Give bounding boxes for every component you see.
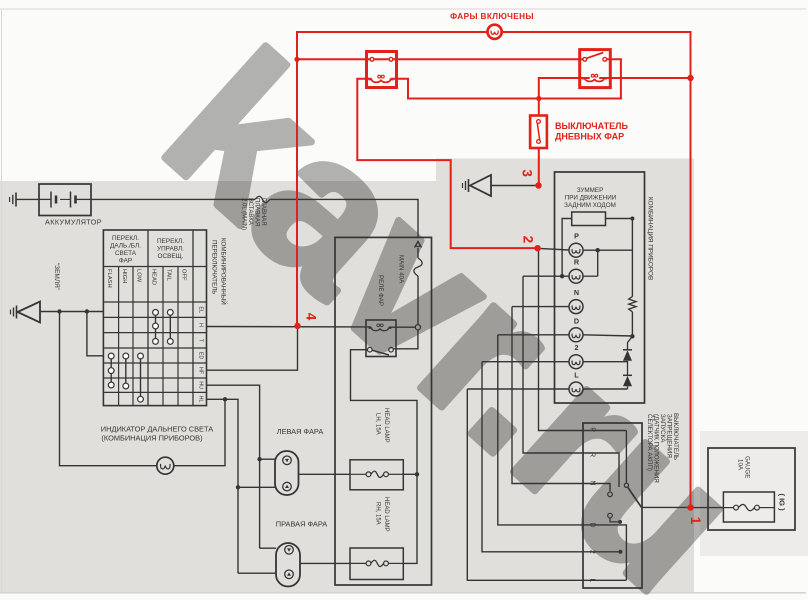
fuse HEAD LAMP RH symbol	[366, 561, 371, 566]
red wire RL2 coil right	[599, 77, 690, 79]
wire ground to battery	[16, 198, 39, 200]
red node 4	[294, 323, 300, 329]
svg-text:LH, 15A: LH, 15A	[375, 413, 381, 435]
svg-text:HEAD: HEAD	[151, 269, 157, 285]
wire selector common to node1	[642, 506, 691, 508]
fuse HEAD LAMP RH box	[350, 548, 403, 580]
red relay RL1 contact	[370, 57, 374, 61]
svg-text:EL: EL	[198, 306, 204, 313]
scanned page gray area	[0, 159, 694, 593]
red node 1	[687, 504, 693, 510]
svg-text:ПЕРЕКЛ.: ПЕРЕКЛ.	[112, 235, 139, 242]
svg-text:HEAD LAMP: HEAD LAMP	[383, 408, 389, 443]
wire D right	[583, 335, 632, 336]
wire node2 to P lamp	[539, 248, 569, 250]
red wire RL1 coil right to RL2 contact	[391, 59, 621, 98]
svg-text:ПРИ ДВИЖЕНИИ: ПРИ ДВИЖЕНИИ	[565, 195, 617, 202]
svg-text:ВЫКЛЮЧАТЕЛЬ: ВЫКЛЮЧАТЕЛЬ	[555, 121, 628, 131]
svg-text:N: N	[574, 288, 579, 297]
wire HU row	[207, 385, 260, 548]
svg-text:УПРАВЛ.: УПРАВЛ.	[157, 246, 184, 253]
svg-text:2.0L (MAIN): 2.0L (MAIN)	[241, 198, 247, 230]
red junction dot right bus	[687, 75, 693, 81]
svg-text:OFF: OFF	[181, 269, 187, 281]
svg-text:HF: HF	[198, 367, 204, 375]
wire L to selector L	[467, 389, 626, 580]
battery cells	[39, 198, 51, 200]
junction dot buzzer-R	[560, 274, 564, 278]
junction dot HU-lamp1	[257, 457, 261, 461]
wire drop to ED row	[87, 312, 104, 356]
wire D to selector D	[498, 335, 627, 581]
svg-text:P: P	[589, 427, 596, 432]
wire L right to diode D2	[583, 388, 628, 390]
page bottom rule	[0, 592, 806, 594]
wire to right lamp high contact	[260, 547, 276, 549]
wire battery to main fuse	[91, 198, 255, 200]
ground G3	[462, 183, 464, 188]
wire MAIN feed lower	[417, 276, 419, 325]
indicator lamp D	[569, 328, 583, 342]
svg-text:2: 2	[589, 550, 596, 554]
wire ground3 to node3	[491, 185, 539, 187]
relay K1 contact	[368, 347, 373, 352]
svg-text:HU: HU	[198, 381, 204, 389]
wire main fuse to relay box	[270, 199, 418, 237]
red wire DRL to node3	[538, 148, 540, 186]
wire to left lamp low contact	[238, 486, 275, 488]
wire R left	[523, 275, 569, 277]
svg-text:“ЗЕМЛЯ”: “ЗЕМЛЯ”	[53, 263, 60, 290]
selector switch box	[583, 423, 642, 588]
red relay RL2 contact	[583, 57, 587, 61]
wire ground2 to switch table	[40, 311, 103, 313]
gauge scan gray area	[700, 431, 808, 556]
relay coil terminal circle	[415, 325, 420, 330]
svg-text:HL: HL	[198, 396, 204, 403]
wire node2 to selector P	[539, 248, 627, 430]
indicator lamp 2	[569, 355, 583, 369]
selector arm	[628, 488, 642, 508]
reverse buzzer	[572, 212, 606, 226]
svg-text:ЗАДНИМ ХОДОМ: ЗАДНИМ ХОДОМ	[564, 202, 616, 209]
right headlamp	[276, 543, 300, 587]
junction dot A	[57, 309, 61, 313]
svg-text:ФАР: ФАР	[119, 258, 132, 265]
red node 3	[535, 182, 541, 188]
fuse main fusible link	[255, 196, 270, 202]
wire 2 to selector 2	[482, 362, 620, 552]
wire P to R right	[597, 250, 599, 276]
red DRL switch box	[530, 116, 547, 149]
wire right lamp to fuse RH	[300, 562, 350, 564]
svg-text:GAUGE: GAUGE	[744, 456, 751, 478]
left headlamp	[275, 451, 299, 495]
red wire RL1 coil left to node2	[357, 79, 535, 248]
red junction dot DRL	[536, 96, 541, 101]
svg-text:ПЕРЕКЛЮЧАТЕЛЬ: ПЕРЕКЛЮЧАТЕЛЬ	[211, 240, 218, 294]
page top rule	[0, 8, 806, 10]
fuse HEAD LAMP LH symbol	[366, 472, 371, 477]
red relay RL1 coil	[369, 80, 394, 83]
wire P right	[583, 249, 632, 251]
svg-text:СЕЛЕКТОРА АКПП): СЕЛЕКТОРА АКПП)	[646, 414, 653, 471]
svg-text:ПРАВАЯ ФАРА: ПРАВАЯ ФАРА	[276, 520, 328, 529]
table contacts HIGH	[125, 356, 127, 386]
wire N to selector N	[512, 307, 610, 491]
svg-text:ГЛАВНАЯ: ГЛАВНАЯ	[260, 198, 266, 226]
red relay RL2 coil	[582, 79, 607, 82]
svg-text:10A: 10A	[737, 459, 744, 471]
svg-text:L: L	[589, 578, 596, 582]
indicator lamp R	[569, 269, 583, 283]
svg-text:КОМБИНИРОВАННЫЙ: КОМБИНИРОВАННЫЙ	[220, 238, 228, 305]
red lamp headlights-on	[488, 25, 502, 39]
wire 2 right to diode D1	[583, 361, 628, 363]
svg-text:R: R	[574, 258, 580, 267]
indicator lamp (high beam)	[157, 457, 174, 474]
svg-text:H: H	[198, 323, 204, 327]
headlight relay unit box	[335, 237, 432, 585]
svg-text:АККУМУЛЯТОР: АККУМУЛЯТОР	[45, 218, 102, 227]
svg-text:РЕЛЕ ФАР: РЕЛЕ ФАР	[377, 275, 384, 306]
fuse HEAD LAMP LH box	[350, 460, 403, 490]
svg-text:ВСТАВКА: ВСТАВКА	[247, 198, 253, 225]
svg-text:ЗАПРЕЩЕНИЯ: ЗАПРЕЩЕНИЯ	[666, 414, 673, 458]
instrument cluster box	[555, 172, 645, 403]
junction dot HL row	[223, 397, 227, 401]
wire to fuse LH	[403, 473, 417, 475]
svg-text:ЗАПУСКА: ЗАПУСКА	[659, 414, 666, 443]
red wire top bus	[297, 32, 488, 326]
wire HL row	[207, 399, 239, 573]
svg-text:СВЕТА: СВЕТА	[115, 250, 137, 257]
svg-text:(КОМБИНАЦИЯ ПРИБОРОВ): (КОМБИНАЦИЯ ПРИБОРОВ)	[101, 434, 202, 443]
indicator lamp P	[569, 243, 583, 257]
svg-text:ЛЕВАЯ ФАРА: ЛЕВАЯ ФАРА	[277, 427, 324, 436]
ground G1 (battery)	[15, 193, 17, 207]
svg-text:ED: ED	[198, 352, 204, 360]
svg-text:MAIN 40A: MAIN 40A	[398, 255, 405, 284]
wire HF row to node4 drop	[207, 327, 298, 371]
svg-text:3: 3	[520, 169, 535, 177]
wire MAIN feed upper	[417, 248, 419, 258]
wire buzzer bus lower	[631, 312, 633, 337]
wire coil terminal to switch	[393, 330, 418, 349]
junction dot HL-lamp1	[236, 485, 240, 489]
relay K1 coil	[369, 328, 392, 331]
combination switch table grid	[103, 230, 206, 406]
wire to indicator lamp	[60, 312, 157, 466]
junction dot diode bus	[630, 334, 634, 338]
wire D left	[498, 334, 569, 336]
diode D2	[623, 374, 632, 376]
selector N contacts	[608, 492, 613, 497]
svg-text:LOW: LOW	[136, 269, 142, 283]
table contacts HEAD	[155, 312, 157, 341]
junction dot fuse LH	[415, 472, 419, 476]
resistor R1	[629, 297, 636, 312]
svg-text:TAIL: TAIL	[166, 269, 172, 282]
svg-text:(ДАТЧИК ПОЛОЖЕНИЯ: (ДАТЧИК ПОЛОЖЕНИЯ	[653, 414, 660, 483]
wire buzzer bus upper	[631, 219, 633, 297]
svg-text:ДАЛЬ./БЛ.: ДАЛЬ./БЛ.	[110, 243, 141, 250]
svg-text:ЗУММЕР: ЗУММЕР	[577, 187, 604, 194]
wire H row to headlight relay coil	[207, 326, 367, 328]
wire 2 left	[482, 361, 569, 363]
table contacts LOW	[140, 356, 142, 399]
table contacts FLASH	[110, 356, 112, 385]
svg-text:FLASH: FLASH	[106, 269, 112, 288]
svg-text:HIGH: HIGH	[121, 269, 127, 284]
wire node1 to gauge fuse	[691, 507, 724, 509]
wire N left	[512, 306, 569, 308]
page left rule	[1, 9, 3, 592]
wire buzzer left to R lamp	[562, 219, 572, 277]
ground G2 ЗЕМЛЯ	[10, 310, 12, 315]
svg-text:R: R	[589, 452, 596, 457]
diode D1	[628, 336, 633, 350]
fuse MAIN 40A	[414, 258, 422, 276]
fuse GAUGE symbol	[734, 505, 739, 510]
svg-text:N: N	[589, 480, 596, 485]
wire left lamp to fuse LH	[299, 473, 351, 475]
wire indicator to HL row	[174, 399, 225, 465]
svg-text:ПЛАВКАЯ: ПЛАВКАЯ	[254, 198, 260, 226]
selector D contact	[610, 518, 618, 522]
red node 2	[534, 245, 540, 251]
red relay RL1 box	[367, 52, 397, 88]
table contacts TAIL	[169, 312, 171, 341]
connector arrow into relay box	[415, 242, 422, 248]
wire to left lamp high contact	[260, 458, 275, 460]
svg-text:4: 4	[304, 313, 319, 321]
junction dot P-R	[596, 248, 600, 252]
wire buzzer right	[606, 218, 633, 220]
wire L left	[467, 388, 569, 390]
selector P contact	[625, 431, 627, 484]
red wire RL2 coil left	[539, 78, 590, 116]
svg-text:ОСВЕЩ.: ОСВЕЩ.	[158, 253, 184, 260]
battery box	[39, 184, 91, 216]
wire to right lamp low contact	[238, 572, 276, 574]
svg-text:D: D	[574, 316, 579, 325]
wire R to selector R	[523, 276, 619, 487]
red junction dot left bus	[294, 57, 299, 62]
svg-text:2: 2	[575, 343, 579, 352]
gauge junction box	[708, 448, 795, 530]
svg-text:2: 2	[521, 236, 536, 244]
svg-text:ИНДИКАТОР ДАЛЬНЕГО СВЕТА: ИНДИКАТОР ДАЛЬНЕГО СВЕТА	[101, 425, 213, 434]
fuse GAUGE box	[723, 492, 774, 522]
red relay RL2 box	[580, 50, 611, 88]
svg-text:ДНЕВНЫХ ФАР: ДНЕВНЫХ ФАР	[555, 132, 624, 142]
svg-text:RH, 15A: RH, 15A	[375, 502, 381, 525]
red DRL switch contacts	[537, 120, 541, 124]
svg-text:ВЫКЛЮЧАТЕЛЬ: ВЫКЛЮЧАТЕЛЬ	[672, 413, 679, 460]
svg-text:КОМБИНАЦИЯ ПРИБОРОВ: КОМБИНАЦИЯ ПРИБОРОВ	[647, 197, 654, 280]
headlight relay K1	[366, 320, 396, 357]
indicator lamp L	[569, 382, 583, 396]
svg-text:1: 1	[688, 517, 703, 525]
svg-text:HEAD LAMP: HEAD LAMP	[383, 497, 389, 532]
svg-text:ФАРЫ ВКЛЮЧЕНЫ: ФАРЫ ВКЛЮЧЕНЫ	[450, 12, 534, 21]
svg-text:D: D	[589, 522, 596, 527]
svg-text:L: L	[574, 371, 579, 380]
svg-text:P: P	[574, 232, 579, 241]
junction dot B	[85, 309, 89, 313]
svg-text:ПЕРЕКЛ.: ПЕРЕКЛ.	[157, 238, 184, 245]
svg-text:( IG ): ( IG )	[778, 494, 787, 512]
wire relay switch to lamp fuses	[351, 350, 418, 564]
red wire contact bus	[297, 58, 585, 60]
indicator lamp N	[569, 300, 583, 314]
